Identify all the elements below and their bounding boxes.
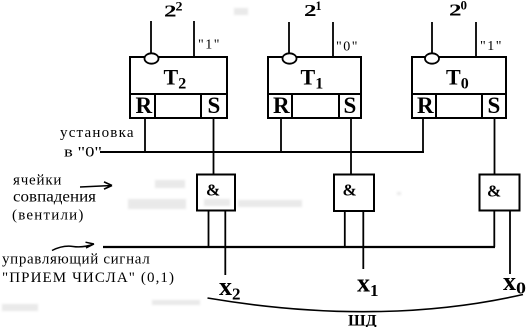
svg-text:"1": "1" — [198, 38, 221, 53]
svg-text:x0: x0 — [503, 267, 526, 298]
wire: T2 S input from gate G2 — [213, 118, 215, 175]
svg-text:&: & — [206, 181, 220, 200]
wire: 2^2 input to T2 bubble — [150, 21, 152, 54]
wire: "1" input to T0 top — [475, 22, 477, 57]
wire: T2 R output down to reset bus — [144, 118, 146, 152]
T1 R cell — [268, 94, 292, 118]
svg-text:R: R — [136, 93, 153, 118]
wire: "0" input to T1 top — [332, 22, 334, 57]
annotation arrow to control bus — [52, 242, 94, 250]
svg-text:x2: x2 — [219, 272, 241, 304]
T0 S cell — [482, 94, 506, 118]
svg-text:ШД: ШД — [348, 313, 377, 327]
T1 S cell — [339, 94, 361, 118]
wire: T1 S input from gate G1 — [350, 118, 352, 175]
T0 inversion bubble — [425, 53, 439, 63]
T0 R cell — [412, 94, 436, 118]
T2 inversion bubble — [145, 53, 159, 63]
svg-text:S: S — [488, 93, 501, 118]
svg-text:T1: T1 — [301, 65, 324, 93]
svg-text:1: 1 — [316, 0, 322, 13]
trigger T2 body — [130, 57, 227, 118]
svg-text:2: 2 — [176, 0, 183, 14]
svg-text:установка: установка — [60, 125, 135, 141]
wire: "1" input to T2 top — [193, 21, 195, 57]
svg-text:S: S — [344, 93, 357, 118]
and-gate G1 box — [334, 175, 374, 212]
T2 S cell — [201, 94, 227, 118]
svg-text:&: & — [487, 182, 501, 201]
annotation arrow to gates — [80, 182, 112, 189]
wire: T0 R output down to reset bus — [422, 118, 424, 152]
data-bus brace — [208, 295, 524, 312]
wire: G0 input from data line x0 — [509, 211, 511, 275]
svg-text:T2: T2 — [164, 65, 187, 93]
svg-text:x1: x1 — [357, 269, 379, 301]
wire: control bus — [103, 246, 495, 248]
wire: G0 input from control bus — [493, 211, 495, 248]
wire: G1 input from data line x1 — [362, 211, 364, 269]
svg-text:"1": "1" — [480, 39, 503, 54]
svg-text:0: 0 — [461, 0, 468, 13]
svg-text:совпадения: совпадения — [13, 189, 97, 206]
wire: 2^0 input to T0 bubble — [431, 22, 433, 54]
T1 inversion bubble — [283, 53, 297, 63]
svg-text:управляющий сигнал: управляющий сигнал — [2, 252, 150, 268]
svg-text:"ПРИЕМ ЧИСЛА" (0,1): "ПРИЕМ ЧИСЛА" (0,1) — [2, 270, 175, 286]
svg-text:ячейки: ячейки — [13, 173, 62, 189]
svg-text:S: S — [208, 93, 221, 118]
svg-text:"0": "0" — [336, 40, 359, 55]
wire: reset bus — [100, 151, 424, 153]
svg-text:R: R — [273, 93, 290, 118]
wire: G2 input from control bus — [208, 211, 210, 248]
wire: 2^1 input to T1 bubble — [288, 22, 290, 54]
trigger T0 body — [412, 57, 506, 118]
svg-text:(вентили): (вентили) — [12, 208, 85, 224]
T2 R cell — [130, 94, 155, 118]
svg-text:&: & — [343, 181, 357, 200]
wire: T0 S input from gate G0 — [494, 118, 496, 175]
svg-text:R: R — [417, 93, 434, 118]
wire: T1 R output down to reset bus — [280, 118, 282, 152]
wire: G2 input from data line x2 — [224, 211, 226, 276]
svg-text:в "0": в "0" — [64, 145, 102, 161]
svg-text:T0: T0 — [446, 65, 469, 93]
wire: G1 input from control bus — [344, 211, 346, 247]
and-gate G0 box — [480, 175, 520, 211]
and-gate G2 box — [197, 175, 235, 211]
trigger T1 body — [268, 57, 361, 118]
